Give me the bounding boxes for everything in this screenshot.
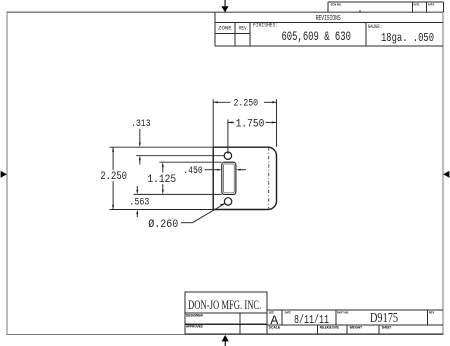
plate outline [213, 147, 276, 209]
svg-text:APP'D: APP'D [428, 2, 434, 6]
dim 2.250 horizontal top [213, 99, 276, 147]
revision block outline [215, 12, 443, 46]
svg-text:D9175: D9175 [370, 310, 398, 325]
svg-text:2.250: 2.250 [100, 171, 127, 183]
hole top [224, 152, 231, 159]
svg-text:605,609 & 630: 605,609 & 630 [281, 29, 351, 44]
bend line dash-dot [268, 147, 270, 209]
dim .563 [136, 186, 138, 191]
svg-text:APPROVED: APPROVED [186, 325, 203, 329]
centering mark bottom [222, 335, 229, 346]
svg-text:.450: .450 [183, 166, 203, 177]
svg-text:FINISHES:: FINISHES: [253, 22, 278, 28]
svg-text:SCALE: SCALE [269, 325, 281, 329]
dim 2.250 vertical left [110, 147, 213, 209]
svg-text:ZONE: ZONE [218, 24, 232, 31]
svg-text:REVISIONS: REVISIONS [316, 15, 341, 23]
svg-text:DATE: DATE [285, 311, 291, 315]
svg-text:2.250: 2.250 [234, 98, 259, 110]
hole bottom [224, 198, 231, 205]
dim 1.125 cutout height [134, 162, 222, 194]
svg-text:PART NO.: PART NO. [337, 311, 349, 315]
centering mark left [1, 171, 7, 178]
svg-text:ECN NO.: ECN NO. [331, 3, 342, 7]
revision history strip box [328, 2, 443, 12]
dim 1.750 horizontal [228, 119, 277, 154]
svg-text:1.125: 1.125 [147, 174, 176, 186]
svg-text:DON-JO MFG. INC.: DON-JO MFG. INC. [188, 297, 261, 312]
svg-text:.563: .563 [129, 198, 149, 209]
svg-text:RELEASE DATE: RELEASE DATE [320, 325, 339, 329]
strip tick mark [359, 10, 361, 12]
svg-text:.313: .313 [131, 119, 151, 130]
cutout outer [222, 162, 236, 194]
svg-text:1.750: 1.750 [236, 118, 265, 130]
centering mark top [221, 0, 228, 12]
svg-text:Ø.260: Ø.260 [148, 219, 178, 231]
cutout inner [224, 164, 235, 193]
svg-text:WEIGHT: WEIGHT [350, 325, 362, 329]
svg-text:REV: REV [429, 311, 435, 315]
svg-text:DESIGNER: DESIGNER [186, 314, 203, 318]
svg-text:GAUGE:: GAUGE: [368, 24, 383, 30]
title block outline [185, 292, 443, 334]
svg-text:REV: REV [239, 24, 247, 31]
svg-text:DATE: DATE [414, 2, 420, 6]
centering mark right [443, 171, 449, 178]
svg-text:18ga. .050: 18ga. .050 [381, 32, 434, 45]
svg-text:SHEET: SHEET [382, 325, 392, 329]
